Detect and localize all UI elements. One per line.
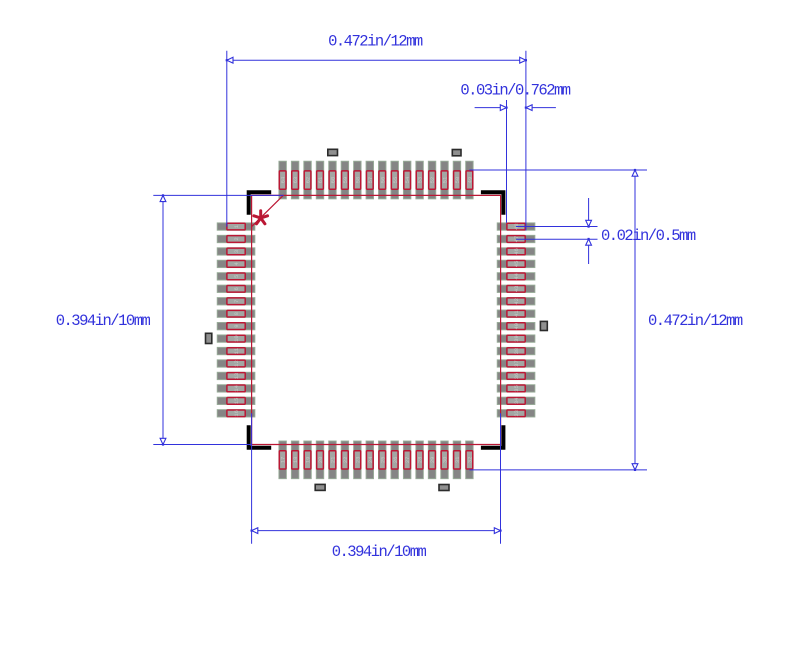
- svg-text:51: 51: [442, 176, 449, 183]
- svg-text:52: 52: [429, 177, 436, 184]
- pad 57 (top row): [366, 161, 374, 199]
- dimension: bottom body width 0.394in/10mm: [251, 413, 502, 561]
- marker square below bottom row left: [315, 484, 325, 490]
- svg-text:17: 17: [280, 457, 287, 464]
- pad 1 (left column): [217, 223, 255, 230]
- svg-text:21: 21: [330, 456, 337, 463]
- pad 35 (right column): [497, 385, 535, 392]
- svg-text:38: 38: [513, 348, 520, 355]
- corner mark top-right: [481, 190, 506, 215]
- svg-text:15: 15: [233, 398, 240, 405]
- pad 20 (bottom row): [316, 441, 324, 479]
- svg-text:60: 60: [330, 177, 337, 184]
- svg-text:49: 49: [467, 177, 474, 184]
- pad 63 (top row): [291, 161, 299, 199]
- pad 24 (bottom row): [366, 441, 374, 479]
- svg-text:59: 59: [342, 177, 349, 184]
- pad 47 (right column): [497, 235, 535, 242]
- svg-text:14: 14: [233, 384, 240, 391]
- pad 6 (left column): [217, 285, 255, 292]
- svg-text:63: 63: [292, 177, 299, 184]
- svg-text:5: 5: [233, 275, 240, 278]
- svg-text:16: 16: [233, 410, 240, 417]
- pad 54 (top row): [403, 161, 411, 199]
- svg-text:26: 26: [392, 457, 399, 464]
- pad 31 (bottom row): [453, 441, 461, 479]
- pad 19 (bottom row): [304, 441, 312, 479]
- svg-text:32: 32: [467, 457, 474, 464]
- pad 41 (right column): [497, 310, 535, 318]
- svg-text:43: 43: [513, 285, 520, 292]
- pin 1 marker asterisk: [254, 211, 268, 224]
- svg-text:23: 23: [354, 457, 361, 464]
- pad 15 (left column): [217, 397, 255, 404]
- svg-text:12: 12: [233, 360, 240, 367]
- corner mark bottom-left: [247, 425, 272, 450]
- pad 53 (top row): [416, 161, 424, 199]
- pin 1 chamfer diagonal: [252, 195, 284, 226]
- pad 4 (left column): [217, 260, 255, 267]
- svg-text:61: 61: [317, 176, 324, 183]
- pad 50 (top row): [453, 161, 461, 199]
- pad 18 (bottom row): [291, 441, 299, 479]
- svg-text:34: 34: [513, 397, 520, 404]
- svg-text:46: 46: [513, 248, 520, 255]
- svg-text:30: 30: [442, 457, 449, 464]
- marker square right side: [540, 321, 547, 330]
- svg-text:55: 55: [392, 177, 399, 184]
- pad 21 (bottom row): [329, 441, 337, 479]
- pad 64 (top row): [279, 161, 287, 199]
- pad 56 (top row): [379, 161, 387, 199]
- svg-text:31: 31: [454, 456, 461, 463]
- svg-text:45: 45: [513, 261, 520, 268]
- pad 40 (right column): [497, 322, 535, 329]
- svg-text:3: 3: [233, 250, 240, 253]
- pad 43 (right column): [497, 285, 535, 292]
- svg-text:42: 42: [513, 298, 520, 305]
- pad 3 (left column): [217, 248, 255, 255]
- pad 30 (bottom row): [441, 441, 449, 479]
- pad 2 (left column): [217, 235, 255, 242]
- pad 7 (left column): [217, 298, 255, 305]
- pad 58 (top row): [354, 161, 362, 199]
- svg-text:9: 9: [233, 324, 240, 327]
- pad 13 (left column): [217, 372, 255, 379]
- svg-text:22: 22: [342, 457, 349, 464]
- svg-text:11: 11: [233, 347, 240, 354]
- svg-text:0.03in/0.762mm: 0.03in/0.762mm: [460, 82, 570, 100]
- svg-text:0.394in/10mm: 0.394in/10mm: [332, 543, 427, 561]
- pad 45 (right column): [497, 260, 535, 267]
- svg-text:50: 50: [454, 177, 461, 184]
- svg-text:44: 44: [513, 272, 520, 279]
- pad 44 (right column): [497, 272, 535, 280]
- dimension: left body height 0.394in/10mm: [56, 194, 284, 445]
- pad 27 (bottom row): [403, 441, 411, 479]
- pad 42 (right column): [497, 298, 535, 305]
- svg-text:27: 27: [404, 457, 411, 464]
- svg-text:64: 64: [280, 176, 287, 183]
- pad 60 (top row): [329, 161, 337, 199]
- pad 25 (bottom row): [379, 441, 387, 479]
- svg-text:7: 7: [233, 300, 240, 303]
- svg-text:57: 57: [367, 177, 374, 184]
- pad 5 (left column): [217, 273, 255, 280]
- dimension: pad pitch 0.02in/0.5mm: [516, 198, 696, 264]
- svg-text:18: 18: [292, 457, 299, 464]
- pad 46 (right column): [497, 248, 535, 255]
- svg-text:33: 33: [513, 410, 520, 417]
- svg-text:19: 19: [305, 457, 312, 464]
- pad 9 (left column): [217, 322, 255, 329]
- svg-text:56: 56: [379, 177, 386, 184]
- marker square top-right of top row: [452, 150, 461, 156]
- marker square top-left of top row: [328, 149, 338, 155]
- dimension: pad length 0.03in/0.762mm: [460, 82, 570, 223]
- svg-text:0.472in/12mm: 0.472in/12mm: [328, 33, 423, 51]
- svg-text:29: 29: [429, 457, 436, 464]
- svg-text:62: 62: [305, 177, 312, 184]
- svg-text:20: 20: [317, 457, 324, 464]
- svg-text:6: 6: [233, 287, 240, 290]
- pad 10 (left column): [217, 335, 255, 342]
- pad 23 (bottom row): [354, 441, 362, 479]
- pad 39 (right column): [497, 335, 535, 342]
- svg-text:2: 2: [233, 237, 240, 240]
- pad 11 (left column): [217, 347, 255, 355]
- pad 38 (right column): [497, 347, 535, 354]
- marker square left side: [206, 333, 212, 343]
- corner mark top-left: [247, 190, 272, 215]
- svg-text:13: 13: [233, 373, 240, 380]
- svg-text:37: 37: [513, 360, 520, 367]
- svg-text:54: 54: [404, 176, 411, 183]
- dimension: top overall width 0.472in/12mm: [226, 33, 527, 231]
- svg-text:28: 28: [417, 457, 424, 464]
- pad 28 (bottom row): [416, 441, 424, 479]
- svg-text:24: 24: [367, 456, 374, 463]
- component outline (silkscreen body square): [252, 195, 501, 444]
- pad 26 (bottom row): [391, 441, 399, 479]
- pad 29 (bottom row): [428, 441, 436, 479]
- svg-text:39: 39: [513, 335, 520, 342]
- pad 32 (bottom row): [466, 441, 474, 479]
- svg-text:8: 8: [233, 312, 240, 315]
- svg-text:10: 10: [233, 335, 240, 342]
- svg-text:35: 35: [513, 385, 520, 392]
- pad 59 (top row): [341, 161, 349, 199]
- corner mark bottom-right: [481, 425, 506, 450]
- pad 17 (bottom row): [279, 441, 287, 479]
- dimension: right overall height 0.472in/12mm: [469, 169, 742, 471]
- pad 48 (right column): [497, 223, 535, 230]
- pad 51 (top row): [441, 161, 449, 199]
- marker square below bottom row right: [439, 485, 449, 491]
- svg-text:40: 40: [513, 323, 520, 330]
- pad 12 (left column): [217, 360, 255, 367]
- pad 52 (top row): [428, 161, 436, 199]
- svg-text:58: 58: [354, 177, 361, 184]
- svg-text:36: 36: [513, 373, 520, 380]
- svg-text:0.472in/12mm: 0.472in/12mm: [648, 312, 743, 330]
- pad 22 (bottom row): [341, 441, 349, 479]
- pad 36 (right column): [497, 372, 535, 379]
- pad 33 (right column): [497, 410, 535, 417]
- pad 37 (right column): [497, 360, 535, 367]
- pad 34 (right column): [497, 397, 535, 405]
- svg-text:0.394in/10mm: 0.394in/10mm: [56, 312, 151, 330]
- pad 16 (left column): [217, 410, 255, 417]
- svg-text:0.02in/0.5mm: 0.02in/0.5mm: [601, 227, 696, 245]
- pad 14 (left column): [217, 384, 255, 392]
- svg-text:41: 41: [513, 310, 520, 317]
- svg-text:25: 25: [379, 457, 386, 464]
- pad 8 (left column): [217, 310, 255, 317]
- pad 61 (top row): [316, 161, 324, 199]
- pad 62 (top row): [304, 161, 312, 199]
- pad 49 (top row): [466, 161, 474, 199]
- svg-text:53: 53: [417, 177, 424, 184]
- pad 55 (top row): [391, 161, 399, 199]
